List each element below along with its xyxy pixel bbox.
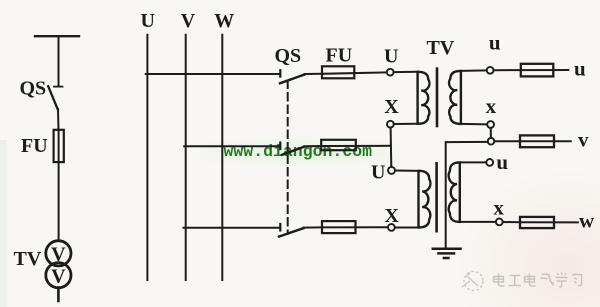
voltage transformer TV upper circle	[46, 241, 71, 266]
wire U terminal to T1 primary winding	[394, 71, 418, 73]
wire through fuse v to output	[520, 140, 571, 142]
wire through fuse w to output	[520, 221, 578, 223]
svg-text:u: u	[574, 57, 586, 81]
transformer T2 secondary winding	[449, 162, 460, 222]
fuse FU pole 2	[321, 140, 356, 150]
terminal circle X (T2 primary)	[388, 224, 395, 231]
disconnector QS blade	[48, 86, 58, 109]
branch 3 wire (W phase)	[184, 227, 280, 229]
svg-text:TV: TV	[14, 248, 42, 270]
ground bottom bar	[444, 257, 449, 260]
fuse FU pole 1	[322, 66, 354, 78]
svg-text:W: W	[214, 10, 234, 32]
svg-text:w: w	[579, 208, 595, 232]
wire X terminal to T2 primary winding	[395, 227, 419, 229]
wire X(T1) to U(T2) vertical	[390, 128, 393, 167]
watermark text 电工电气学习 (vector strokes)	[494, 273, 582, 288]
wire x terminal to fuse w	[503, 221, 520, 223]
wire T2 secondary bottom to terminal x	[460, 221, 496, 223]
svg-text:FU: FU	[326, 45, 353, 67]
wire through fuse2 to T junction	[321, 145, 391, 147]
switch QS pole 2 blade	[282, 147, 304, 155]
wire below TV	[57, 288, 60, 302]
char 气	[541, 274, 554, 285]
voltage transformer TV lower circle	[46, 263, 71, 288]
fuse FU pole 3	[322, 221, 356, 233]
wire x terminal to junction	[490, 128, 492, 138]
svg-text:TV: TV	[427, 37, 455, 59]
terminal circle x (T1 secondary)	[487, 121, 494, 128]
svg-text:x: x	[486, 94, 497, 118]
svg-text:FU: FU	[21, 135, 48, 157]
wire through fuse	[58, 130, 60, 241]
faint green tint behind watermark	[200, 138, 400, 166]
ground top bar	[433, 247, 461, 250]
transformer T1 secondary winding	[449, 71, 461, 124]
wire through fuse1 to terminal U	[322, 72, 387, 73]
fuse v (secondary)	[520, 135, 554, 147]
switch QS pole 1 blade	[280, 75, 305, 84]
svg-text:U: U	[371, 162, 385, 184]
char 习	[572, 275, 582, 286]
wire U terminal to T2 primary winding	[395, 170, 419, 172]
wire QS to FU	[57, 109, 60, 131]
fuse FU (left)	[54, 130, 64, 162]
svg-text:u: u	[489, 31, 501, 55]
svg-text:QS: QS	[275, 45, 302, 67]
svg-text:QS: QS	[20, 78, 47, 100]
char 电	[525, 274, 536, 287]
wire T1 secondary bottom to terminal x	[461, 123, 487, 126]
transformer T2 primary winding	[419, 171, 431, 228]
svg-text:V: V	[51, 266, 66, 288]
svg-text:v: v	[578, 127, 589, 151]
watermark logo (bird sketch)	[462, 272, 483, 291]
terminal circle u (T2 secondary)	[486, 159, 493, 166]
faint left-edge scan streak	[0, 140, 7, 307]
wire u terminal to fuse u	[494, 69, 521, 71]
svg-text:u: u	[496, 150, 508, 174]
wire bus to QS	[58, 36, 60, 85]
switch QS pole 3 contact tick	[279, 224, 281, 231]
char 学	[556, 273, 568, 288]
bus line U	[146, 35, 148, 280]
disconnector QS contact tick	[54, 86, 63, 88]
char 电	[494, 274, 505, 287]
switch QS pole 2 contact tick	[279, 143, 281, 150]
svg-text:U: U	[384, 46, 398, 68]
wire junction to fuse v	[494, 140, 520, 142]
wire switch3 to fuse3	[303, 226, 322, 228]
switch QS pole 3 blade	[279, 228, 304, 236]
ground middle bar	[439, 252, 455, 255]
wire through fuse u to output	[521, 69, 569, 71]
wire switch1 to fuse1	[305, 73, 323, 75]
branch 2 wire (V phase)	[184, 145, 279, 147]
transformer T1 primary winding	[418, 72, 430, 124]
fuse u (secondary)	[521, 64, 554, 77]
core T2	[435, 163, 438, 231]
terminal circle X (T1 primary)	[387, 121, 394, 128]
terminal circle U (T2 primary)	[388, 167, 395, 174]
svg-text:V: V	[181, 10, 196, 32]
char 工	[509, 276, 522, 286]
svg-text:U: U	[141, 10, 155, 32]
junction circle (v tap)	[488, 138, 495, 145]
linkage dashed line	[287, 81, 289, 234]
wire T1 secondary top to terminal u	[461, 69, 487, 72]
terminal circle u (T1 secondary)	[487, 67, 494, 74]
faint pink tint bottom-right	[440, 170, 600, 307]
svg-text:V: V	[51, 244, 66, 266]
branch 1 wire (U phase)	[146, 73, 280, 75]
busbar	[35, 35, 79, 37]
switch QS pole 1 contact tick	[279, 70, 281, 76]
wire switch2 to fuse2	[304, 145, 321, 147]
bus line W	[221, 35, 223, 280]
wire X terminal to T1 primary winding	[394, 123, 418, 125]
terminal circle U (T1 primary)	[387, 69, 394, 76]
wire through fuse3 to terminal X	[322, 226, 388, 228]
wire junction to earth run	[446, 142, 488, 248]
bus line V	[185, 35, 187, 280]
fuse w (secondary)	[520, 217, 554, 228]
terminal circle x (T2 secondary)	[496, 219, 503, 226]
svg-text:X: X	[384, 96, 399, 118]
core T1	[436, 69, 439, 126]
svg-text:x: x	[493, 196, 504, 220]
wire T2 secondary top to terminal u	[460, 161, 487, 163]
